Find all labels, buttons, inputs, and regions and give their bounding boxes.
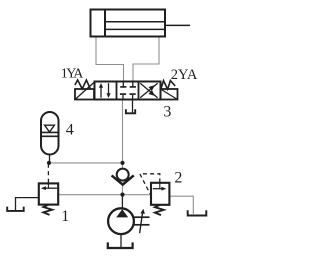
svg-text:2YA: 2YA: [171, 67, 198, 83]
svg-text:1YA: 1YA: [61, 66, 85, 81]
svg-text:2: 2: [174, 170, 182, 187]
svg-text:1: 1: [61, 208, 69, 225]
svg-text:4: 4: [66, 121, 74, 138]
svg-text:3: 3: [163, 103, 171, 120]
